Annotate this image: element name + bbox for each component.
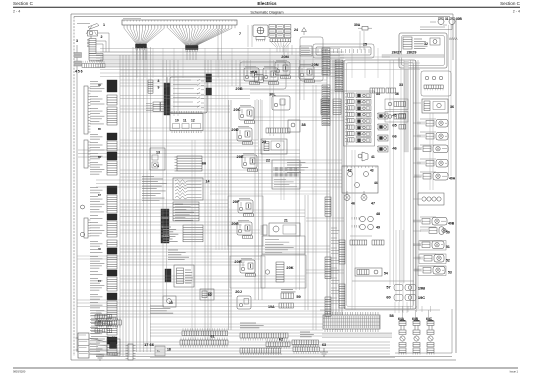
wire: bottom bus line 1 <box>71 359 456 361</box>
bottom vertical comb <box>126 344 136 360</box>
relay tag 20G <box>231 221 238 226</box>
connector by 33 <box>370 88 396 93</box>
tag 64B <box>412 317 419 321</box>
svg-text:3: 3 <box>76 39 78 43</box>
relay tag 20H <box>234 259 241 264</box>
ignition switch body <box>88 31 98 39</box>
item 32 label <box>424 42 428 46</box>
wire band 300s <box>77 300 330 307</box>
box 32 internals <box>403 37 440 49</box>
vertical rail pair x228 <box>229 100 232 330</box>
relay beside 24 <box>302 28 307 36</box>
header rule <box>13 6 520 8</box>
svg-text:Issue 1: Issue 1 <box>510 370 519 374</box>
wire: right rail outer <box>455 18 457 353</box>
footer rule <box>13 367 518 369</box>
relay array right col <box>377 113 406 152</box>
column switch stalk <box>77 24 99 35</box>
box right of 23 <box>261 139 287 154</box>
svg-text:20B: 20B <box>235 86 242 91</box>
lamp row 40B <box>414 218 447 226</box>
svg-text:20K: 20K <box>286 265 293 270</box>
item 24 label <box>294 28 298 32</box>
lamp row y123 <box>418 120 448 128</box>
wire band 230s <box>120 230 260 233</box>
lamp row y136 <box>418 133 448 141</box>
relay unit 20B <box>244 67 260 85</box>
diode matrix below 14 <box>173 202 199 221</box>
connector block below switch <box>89 54 103 63</box>
relay unit 20G <box>237 221 253 239</box>
svg-text:12: 12 <box>191 119 195 123</box>
glow plug drop wires <box>403 306 431 312</box>
array right upper boxes <box>385 99 408 122</box>
relay tag 20K <box>286 265 293 270</box>
harness run upper-mid <box>120 70 344 76</box>
wire: top bus line 2 <box>74 16 450 18</box>
vert band x192 <box>192 140 195 340</box>
bottom connector strip 1 <box>96 318 121 328</box>
resistor bank 14 <box>173 178 203 200</box>
starter cluster <box>107 335 120 356</box>
tag 40B <box>448 222 455 226</box>
svg-text:57: 57 <box>386 285 390 290</box>
engine connector strip 58 <box>323 312 380 332</box>
relay unit 20D <box>237 127 253 145</box>
vert band x218 <box>216 25 228 250</box>
bottom text rows 3 <box>300 332 314 337</box>
switch unit 13-4 <box>150 148 165 170</box>
wire: right rail inner <box>452 14 454 60</box>
svg-text:34: 34 <box>376 92 380 96</box>
tag 53 <box>448 271 452 275</box>
vert band x163 <box>163 60 167 300</box>
footer issue <box>510 370 519 374</box>
svg-text:2 - 4: 2 - 4 <box>513 10 520 14</box>
vert band x352 <box>352 150 355 310</box>
enclosure lower rows <box>350 236 384 245</box>
item 14 label <box>206 180 210 184</box>
svg-text:40A: 40A <box>449 177 456 181</box>
dashed box around 20N <box>300 37 323 81</box>
row 57-19B <box>386 285 416 291</box>
bottom comb strip 4 <box>292 340 318 347</box>
svg-text:20C: 20C <box>233 107 240 112</box>
tag 51 <box>446 245 450 249</box>
strip connector block right <box>186 46 199 52</box>
svg-text:2 - 4: 2 - 4 <box>13 10 20 14</box>
fuse 30A label <box>354 23 361 27</box>
tag 64C <box>426 317 433 321</box>
svg-text:43: 43 <box>370 169 374 173</box>
subtitle: Schematic Diagram <box>250 11 283 15</box>
box below 20J <box>237 296 251 309</box>
strip connector block left <box>136 44 147 50</box>
left sub circle <box>80 205 84 237</box>
tag 64A <box>398 317 405 321</box>
tag 50 <box>446 231 450 235</box>
harness run lower <box>120 246 330 252</box>
svg-text:46: 46 <box>351 202 355 206</box>
page header right: Section C <box>500 1 521 6</box>
gray box 18 <box>155 346 165 356</box>
item 15 label <box>169 301 173 305</box>
item 36 tag <box>450 105 454 109</box>
trunk center <box>205 60 211 340</box>
trunk right2 <box>305 195 308 310</box>
wires to flashers <box>420 22 452 30</box>
switch assembly item 3 label <box>76 39 78 43</box>
harness run bottom <box>150 333 392 336</box>
svg-text:10: 10 <box>175 119 179 123</box>
glow plug 64A <box>399 321 406 355</box>
svg-text:64C: 64C <box>426 317 433 321</box>
wire: left rail 2 <box>73 17 75 357</box>
wires below strip 58 <box>150 334 395 358</box>
svg-text:51: 51 <box>446 245 450 249</box>
switch assembly item 1 label <box>103 23 105 27</box>
box around 20K <box>261 255 306 288</box>
svg-text:48: 48 <box>376 212 380 216</box>
item 33 label <box>399 83 403 87</box>
left column micro labels <box>98 83 101 323</box>
box above 20K <box>262 236 305 254</box>
relay tag 20E <box>237 154 244 159</box>
alternator 63 <box>320 343 328 356</box>
relay unit 20N <box>299 65 315 83</box>
svg-text:1: 1 <box>103 23 105 27</box>
hatch connector by 21 <box>261 225 268 235</box>
switch assembly item 2 label <box>101 35 103 39</box>
left column wire labels <box>90 82 104 355</box>
svg-text:52: 52 <box>446 259 450 263</box>
box below 30L <box>272 96 290 110</box>
glow plug 64C <box>427 321 434 355</box>
relay array combs <box>346 100 362 144</box>
left connector column blocks <box>107 80 117 355</box>
lamp row y163 <box>418 160 448 168</box>
relay unit 20F <box>238 199 254 217</box>
left sub connector comb 2 <box>84 140 91 168</box>
bottom comb strip 3 <box>240 333 288 355</box>
item 66 tag <box>202 161 207 166</box>
svg-text:Section C: Section C <box>500 1 521 6</box>
item 16 label <box>208 293 212 297</box>
trunk center2 <box>255 100 262 300</box>
earth hatch <box>96 356 104 360</box>
svg-text:20A: 20A <box>250 70 257 75</box>
label 30L <box>269 92 276 97</box>
svg-text:7: 7 <box>239 32 241 36</box>
svg-text:ΛΛΛΛ: ΛΛΛΛ <box>449 37 458 41</box>
handwriting mark <box>449 37 458 41</box>
glow plug 64B <box>413 321 420 355</box>
svg-text:41: 41 <box>371 155 375 159</box>
svg-text:30B: 30B <box>456 17 463 21</box>
relay unit 20B second <box>263 67 279 85</box>
relay unit 20C <box>239 106 255 124</box>
relay unit 20H <box>240 259 256 277</box>
switch contact stack <box>87 39 96 54</box>
harness run mid <box>78 150 300 157</box>
wire band 80s <box>120 80 327 86</box>
wire band 275s <box>120 276 305 282</box>
array tag 4 <box>392 146 397 151</box>
item 43 label <box>370 169 374 173</box>
lamp row 50 <box>421 227 448 235</box>
item 30B label <box>456 17 463 21</box>
horn 41 <box>358 152 368 161</box>
svg-text:64A: 64A <box>398 317 405 321</box>
lamp row y148 <box>415 145 448 153</box>
item 8 label <box>158 79 160 83</box>
connector rows box <box>175 156 203 171</box>
tag 25A <box>250 70 264 83</box>
left sub connector comb 3 <box>84 218 91 238</box>
tag 19C <box>418 295 425 300</box>
wire band 310s <box>96 311 330 317</box>
lamp row 40A <box>415 173 448 181</box>
tag 17 66 <box>144 342 155 347</box>
svg-text:20J: 20J <box>235 289 242 294</box>
wire band 325s <box>150 324 323 330</box>
page number right: 2 - 4 <box>513 10 520 14</box>
svg-text:20H: 20H <box>234 259 241 264</box>
gray box A <box>74 53 82 58</box>
item 25 strip <box>300 44 374 58</box>
dark block in 15 cluster <box>165 269 171 282</box>
tag 22 <box>266 158 271 163</box>
wire from switch to bus <box>96 33 109 52</box>
bottom comb strip 62 <box>266 340 290 349</box>
vert band x296 <box>296 60 300 290</box>
relay tag 20B <box>235 86 242 91</box>
wires left-to-center <box>120 106 245 296</box>
gauge dial <box>257 27 264 34</box>
svg-text:50: 50 <box>446 231 450 235</box>
tag 20J bottom <box>235 289 242 294</box>
tag 61 <box>210 334 215 339</box>
bottom comb strip 2b <box>182 328 228 335</box>
svg-text:26/27: 26/27 <box>392 50 402 55</box>
svg-text:47: 47 <box>371 202 375 206</box>
rows by 59 <box>281 290 296 299</box>
top band extension <box>100 49 420 77</box>
svg-text:19C: 19C <box>418 295 425 300</box>
tag 40A <box>449 177 456 181</box>
svg-text:Electrics: Electrics <box>257 1 277 6</box>
item 15 box <box>163 296 176 307</box>
wiper box 42 43 44 <box>342 166 378 193</box>
right column tiny text <box>420 119 436 266</box>
label rows left of 14 <box>142 177 167 201</box>
motor circle 21L <box>164 232 169 240</box>
top band drops <box>137 48 378 78</box>
wire band 140s <box>120 140 258 146</box>
lamp 49 <box>352 224 373 230</box>
box right of 22 <box>272 160 300 189</box>
flasher unit 31 <box>438 18 444 25</box>
box 36 <box>422 99 448 113</box>
svg-text:2: 2 <box>101 35 103 39</box>
control box 32 <box>399 33 447 68</box>
item 48 tag <box>376 212 380 216</box>
enclosure inner divider <box>352 280 414 282</box>
item 9 label <box>158 86 160 90</box>
array tag 1 <box>392 113 397 118</box>
bottom left text rows <box>91 313 112 339</box>
svg-text:19A: 19A <box>268 305 275 309</box>
gray box B <box>74 61 82 66</box>
lower big box A <box>174 265 194 287</box>
lamp row 53 <box>415 266 446 276</box>
harness run bottom2 <box>96 342 390 354</box>
strip connector wires down <box>137 50 196 60</box>
vert band x313 <box>313 85 316 330</box>
svg-text:20E: 20E <box>237 154 244 159</box>
svg-text:AA: AA <box>112 335 116 339</box>
vert band x401 <box>401 60 404 283</box>
wire: left rail 1 <box>70 14 72 360</box>
fuse 30A symbol <box>358 27 372 31</box>
drops 57 rows to 58 strip <box>395 302 407 313</box>
trunk tick blocks extra <box>325 197 331 316</box>
relay unit 20M <box>275 61 291 79</box>
relay array 2x6 <box>344 91 375 146</box>
wire: top bus line 1 <box>71 13 453 15</box>
bottom text rows 2 <box>240 323 264 328</box>
item 31 label <box>445 17 449 21</box>
bottom text rows 1 <box>150 306 173 313</box>
tag 58 <box>389 313 394 318</box>
gauge bezel <box>253 25 268 37</box>
relay tag 20N <box>311 62 318 67</box>
tag 28/29 <box>407 50 418 55</box>
battery <box>76 333 90 358</box>
ecu box 10 11 12 <box>170 114 203 131</box>
box 21 unit <box>269 219 300 237</box>
wires in 20B box <box>244 60 261 140</box>
relay tag 20M <box>281 54 289 59</box>
wire band 180s <box>96 180 342 187</box>
item 18 label <box>167 348 171 352</box>
svg-text:40B: 40B <box>448 222 455 226</box>
dashed box around 20B <box>240 62 286 89</box>
footer publication number <box>13 370 26 374</box>
gauge base <box>256 37 265 42</box>
svg-text:36: 36 <box>450 105 454 109</box>
verticals misc <box>170 25 364 116</box>
tag 26/27 <box>392 50 402 55</box>
svg-text:20M: 20M <box>281 54 289 59</box>
svg-text:63: 63 <box>322 343 326 347</box>
connector box 4way <box>418 193 444 205</box>
pin matrix upper right <box>321 99 341 114</box>
trunk right <box>327 60 342 330</box>
array tag 3 <box>392 134 397 139</box>
cab enclosure box <box>344 60 416 309</box>
svg-text:25: 25 <box>363 43 367 47</box>
array tag 2 <box>392 123 397 128</box>
page header center: Electrics <box>257 1 277 6</box>
item 42 tag <box>347 168 352 173</box>
comb block below table <box>146 102 167 111</box>
trunk left A <box>120 55 129 356</box>
harness run mid2 <box>120 170 342 177</box>
wires 57 rows up <box>396 230 403 302</box>
wire band 95s <box>120 96 250 99</box>
wire table 8 9 <box>170 77 207 113</box>
lamp 47 <box>361 191 367 201</box>
glow plug bus <box>320 310 440 321</box>
unit 54 <box>355 268 382 276</box>
vert band x281 <box>281 100 284 200</box>
item labels 4 5 6 <box>75 70 83 74</box>
left sub connector comb 1 <box>84 86 91 134</box>
svg-text:9803/3280: 9803/3280 <box>13 370 26 374</box>
svg-text:20D: 20D <box>231 127 238 132</box>
wire loop bottom right <box>395 309 452 353</box>
vert band x270 <box>270 60 274 136</box>
gray bus bar right of array <box>404 60 409 152</box>
item 47 tag <box>371 202 375 206</box>
svg-text:60: 60 <box>386 295 390 300</box>
svg-text:31: 31 <box>445 17 449 21</box>
svg-text:32: 32 <box>424 42 428 46</box>
harness run top <box>96 52 344 67</box>
trunk ticks column right <box>331 228 345 308</box>
wire band 210s <box>120 210 305 217</box>
cell strip above 23 <box>266 128 290 133</box>
svg-text:24: 24 <box>294 28 298 32</box>
svg-text:21: 21 <box>284 219 288 223</box>
ecu pin comb top <box>172 111 201 133</box>
tag 52 <box>446 259 450 263</box>
item 54 label <box>384 272 388 276</box>
item 46 tag <box>351 202 355 206</box>
svg-text:28/29: 28/29 <box>407 50 418 55</box>
wire: bottom bus line 2 <box>96 356 452 358</box>
lamp 46 <box>344 191 350 201</box>
fuse array <box>269 25 291 42</box>
page number left: 2 - 4 <box>13 10 20 14</box>
item 44 label <box>374 181 378 185</box>
svg-text:8: 8 <box>158 79 160 83</box>
item 49 tag <box>376 226 380 230</box>
wire fan from strip <box>124 28 232 45</box>
wire: left rail 3 <box>76 45 78 352</box>
trunk far right <box>411 60 419 309</box>
relay tag 20C <box>233 107 240 112</box>
box around 20H <box>230 256 265 288</box>
main harness connector strip item 7 <box>122 20 237 28</box>
comb strip near 63 <box>293 345 319 354</box>
label 19A <box>268 305 275 309</box>
svg-text:11: 11 <box>183 119 187 123</box>
trunk left B <box>133 47 151 352</box>
fuse array drops <box>271 42 291 52</box>
flasher unit 30B <box>449 18 455 25</box>
dark connector block left of 14 <box>161 209 169 243</box>
harness comb item 4 5 6 <box>82 61 105 68</box>
item 16 box <box>200 289 214 300</box>
relay tag 20D <box>231 127 238 132</box>
lamp row 51 <box>414 241 446 251</box>
lamp 48 <box>352 216 373 222</box>
vert band x430 <box>430 113 433 190</box>
item 41 label <box>371 155 375 159</box>
tiny text above strip <box>123 18 141 20</box>
